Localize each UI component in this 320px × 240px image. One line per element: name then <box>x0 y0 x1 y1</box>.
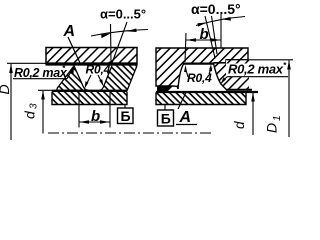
alpha angle legs <box>110 24 113 63</box>
svg-text:α=0...5°: α=0...5° <box>100 7 146 22</box>
b dimension (bottom) <box>79 91 110 128</box>
svg-text:R0,4: R0,4 <box>86 63 111 77</box>
R0,2 max* label with shelf and leader <box>13 64 74 80</box>
svg-text:3: 3 <box>29 103 40 109</box>
d dimension <box>232 92 255 135</box>
D1 dimension <box>264 60 291 137</box>
backing ring (lower band) <box>52 91 127 105</box>
svg-text:α=0...5°: α=0...5° <box>191 1 241 17</box>
svg-text:b: b <box>200 26 209 43</box>
svg-text:R0,2 max: R0,2 max <box>14 66 68 80</box>
svg-text:d: d <box>22 110 38 119</box>
right mass of lower part <box>100 66 137 91</box>
d3 extension line <box>38 89 52 91</box>
wedge of lower part <box>57 66 88 91</box>
svg-text:D: D <box>0 84 12 94</box>
svg-text:D: D <box>264 123 280 133</box>
R0,2 max* label with shelf and leader (over hatching) <box>220 61 290 85</box>
axis line (dash-dot) <box>48 132 213 134</box>
d3 dimension <box>22 90 45 133</box>
boxed label B (view) <box>118 105 134 124</box>
boxed label B (view) <box>158 105 174 127</box>
D extension line <box>7 62 46 64</box>
right section of upper part (S-curve boundary) <box>214 60 253 90</box>
svg-text:A: A <box>179 109 192 126</box>
svg-text:d: d <box>232 121 247 129</box>
alpha dimension line with arrows <box>91 28 148 38</box>
upper band (pipe wall, section) <box>46 48 138 65</box>
svg-text:R0,2 max: R0,2 max <box>228 62 284 77</box>
svg-text:b: b <box>91 108 100 125</box>
svg-text:1: 1 <box>272 115 283 121</box>
D1 extension line <box>226 59 293 61</box>
R0,4* label with two leaders <box>184 64 213 85</box>
alpha dimension line with arrows <box>196 17 245 27</box>
callout A (label + leader, bottom) <box>176 93 197 127</box>
svg-text:Б: Б <box>121 108 131 124</box>
D dimension <box>0 64 13 141</box>
bore contact line (thicker) <box>184 62 214 64</box>
weld seam (solid) <box>157 86 173 92</box>
R0,4* label with two leaders <box>85 60 113 89</box>
thick bore line <box>46 62 138 65</box>
backing ring (lower band) <box>156 92 258 105</box>
alpha angle legs <box>205 16 215 58</box>
weld seam (solid) <box>113 66 135 72</box>
upper band with lip (pipe wall, section) <box>156 48 248 89</box>
callout A (label + leader) <box>63 23 81 63</box>
svg-text:Б: Б <box>161 110 171 126</box>
b dimension (top) <box>185 14 221 62</box>
